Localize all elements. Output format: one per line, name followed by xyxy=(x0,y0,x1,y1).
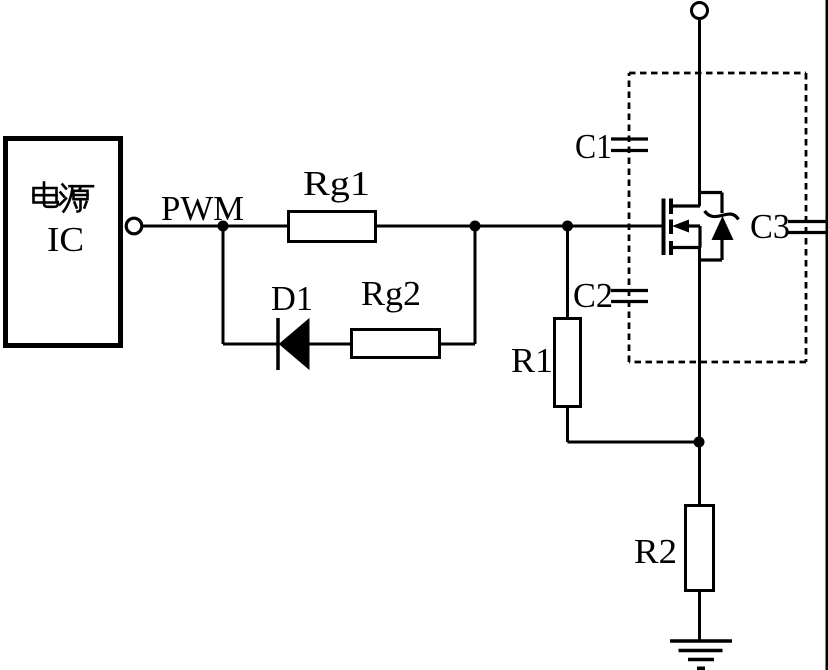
svg-text:R1: R1 xyxy=(511,341,553,380)
svg-text:D1: D1 xyxy=(271,279,313,318)
svg-text:C1: C1 xyxy=(575,127,612,166)
svg-text:PWM: PWM xyxy=(161,189,244,228)
svg-text:C3: C3 xyxy=(750,207,790,246)
svg-text:Rg2: Rg2 xyxy=(361,274,421,313)
svg-text:C2: C2 xyxy=(573,276,613,315)
svg-text:IC: IC xyxy=(47,220,84,259)
svg-text:R2: R2 xyxy=(634,532,677,571)
svg-text:Rg1: Rg1 xyxy=(303,164,370,203)
